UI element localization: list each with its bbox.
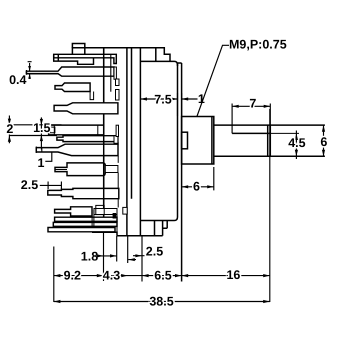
dim 7 lines — [232, 104, 270, 134]
pin P2 tail (0.4 thin) — [27, 71, 62, 73]
arrow 6 right up — [322, 125, 325, 132]
dim 6 bushing lines — [182, 167, 214, 190]
extension line wafer A right — [116, 236, 118, 262]
pin P9 — [48, 188, 119, 198]
pin P8 tip notch — [55, 169, 67, 171]
svg-text:16: 16 — [226, 268, 240, 282]
extension line left pins — [53, 247, 55, 303]
arrow 2 up — [8, 136, 11, 142]
wafer slot 1 — [116, 79, 120, 86]
shaft tip end lines — [268, 125, 271, 156]
svg-text:1: 1 — [38, 156, 45, 170]
pin P11b — [53, 222, 117, 226]
arrow 1 top — [182, 97, 189, 100]
wafer A bottom line — [92, 232, 117, 236]
dim 0.4 lines — [28, 62, 32, 79]
svg-text:0.4: 0.4 — [9, 73, 26, 87]
svg-text:M9,P:0.75: M9,P:0.75 — [229, 38, 287, 52]
arrow 6 bushing right — [207, 185, 214, 188]
pin P11c — [48, 228, 115, 232]
arrow 2.5 bottom b — [128, 258, 135, 261]
pin P10 bracket — [96, 205, 104, 214]
arrow 16 left — [182, 274, 189, 277]
extension line shaft tip — [269, 109, 271, 302]
extension line rotor — [127, 236, 129, 263]
pin P7 tip tick — [36, 147, 42, 154]
svg-text:2: 2 — [6, 122, 13, 136]
pin P6 hook — [114, 136, 118, 144]
svg-text:4.3: 4.3 — [103, 269, 120, 283]
rotor column left line — [126, 48, 128, 236]
arrow 0.4 up — [28, 74, 31, 79]
arrow 38.5 left — [54, 300, 61, 303]
pin P2 hook — [114, 67, 116, 79]
pin P1 top plate — [54, 54, 117, 63]
contact tab right — [123, 207, 127, 214]
flat extension line for 4.5 dim — [270, 132, 299, 134]
svg-text:6.5: 6.5 — [154, 269, 171, 283]
svg-text:1.5: 1.5 — [33, 121, 50, 135]
dim 2 lines — [9, 116, 61, 144]
wafer slot 2 — [116, 125, 118, 136]
arrow 38.5 right — [263, 300, 270, 303]
top tab — [72, 44, 84, 55]
body bottom line — [117, 235, 163, 237]
wafer A left edge overlay — [103, 48, 105, 205]
pin P5 flat lug — [49, 125, 104, 135]
pin P2 lug — [27, 67, 115, 76]
pin P1 tip block — [54, 54, 94, 64]
arrow 6.5 right — [175, 274, 182, 277]
pin P4 bullet — [54, 103, 118, 114]
dim 7.5 line — [140, 98, 177, 100]
arrow 6 right down — [322, 150, 325, 157]
svg-text:2.5: 2.5 — [146, 244, 163, 258]
bushing — [182, 117, 214, 165]
pin P3 foot — [90, 92, 94, 100]
black contact tab — [113, 213, 117, 219]
dim 1 left leader — [45, 152, 52, 161]
bushing inner edge line — [211, 117, 213, 165]
arrow 6 bushing left — [182, 185, 189, 188]
extension line wafer B — [141, 236, 143, 282]
pin P3 — [55, 83, 90, 92]
arrow 1.5 down — [40, 119, 43, 125]
arrow 7.5 left — [140, 97, 147, 100]
svg-text:7.5: 7.5 — [154, 92, 171, 106]
svg-text:4.5: 4.5 — [288, 136, 305, 150]
svg-text:6: 6 — [320, 135, 327, 149]
svg-text:7: 7 — [249, 96, 256, 110]
pin P8 extension — [105, 166, 118, 173]
dim 6 right line — [323, 125, 325, 156]
wafer A right edge segments — [117, 142, 119, 208]
body top boss outline — [72, 48, 170, 62]
dim 4.5 line — [295, 131, 297, 160]
pin P7 — [36, 144, 118, 155]
svg-text:6: 6 — [193, 180, 200, 194]
cluster right edge — [116, 213, 118, 232]
pin P10 — [55, 207, 92, 216]
cap front block outline — [140, 61, 177, 220]
extension line wafer A — [103, 232, 105, 281]
arrow 1.8 b — [110, 254, 117, 257]
arrow 4.5 up — [295, 133, 298, 140]
rotor column right line — [131, 48, 133, 199]
foot step lines — [155, 221, 168, 236]
svg-text:38.5: 38.5 — [149, 295, 173, 309]
pin P8 bullet — [55, 163, 105, 176]
arrow 1.5 up — [40, 135, 43, 141]
arrow 0.4 down — [28, 66, 31, 71]
svg-text:1.8: 1.8 — [81, 250, 98, 264]
svg-text:1: 1 — [198, 92, 205, 106]
detent block on flange — [182, 132, 188, 149]
M9 leader line — [197, 45, 229, 116]
wafer slot 1b — [116, 90, 120, 101]
dim 38.5 line — [54, 301, 270, 303]
arrow 1.8 a — [97, 254, 104, 257]
arrow 4.5 down — [295, 150, 298, 157]
arrow 9.2 left — [54, 274, 61, 277]
arrow 16 right — [263, 274, 270, 277]
dim 1 top lines — [178, 93, 198, 116]
arrow 7 left — [232, 105, 239, 108]
pin P11a — [55, 217, 117, 221]
arrow 6.5 left — [142, 274, 149, 277]
bracket leg lines — [92, 210, 94, 226]
dim 1.8 line — [97, 255, 117, 257]
arrow 2.5 bottom a — [135, 254, 142, 257]
dim 1.5 line — [40, 117, 42, 149]
svg-text:9.2: 9.2 — [64, 269, 81, 283]
pin P5 inner detail — [50, 125, 97, 135]
arrow 7 right — [264, 105, 271, 108]
arrow 9.2 right — [97, 274, 104, 277]
mounting flange — [178, 63, 182, 282]
arrow 4.3 right — [121, 274, 128, 277]
shaft flat line — [232, 132, 270, 134]
dim 2.5 left line — [40, 182, 62, 190]
wafer A left edge — [103, 47, 105, 232]
dim 2.5 bottom line — [128, 256, 144, 260]
pin P2 tip tick — [26, 70, 28, 75]
dim row line 9.2/4.3/6.5/16 — [54, 275, 270, 277]
arrow 4.3 left — [103, 274, 110, 277]
wafer B / cap left edge — [139, 48, 141, 236]
svg-text:2.5: 2.5 — [21, 178, 38, 192]
pin P6 — [57, 136, 118, 142]
arrow 2 down — [8, 119, 11, 125]
pin P10 extension strip — [94, 209, 117, 215]
shaft outline — [214, 125, 325, 156]
wafer A inner edge — [110, 54, 112, 91]
arrow 7.5 right — [171, 97, 178, 100]
